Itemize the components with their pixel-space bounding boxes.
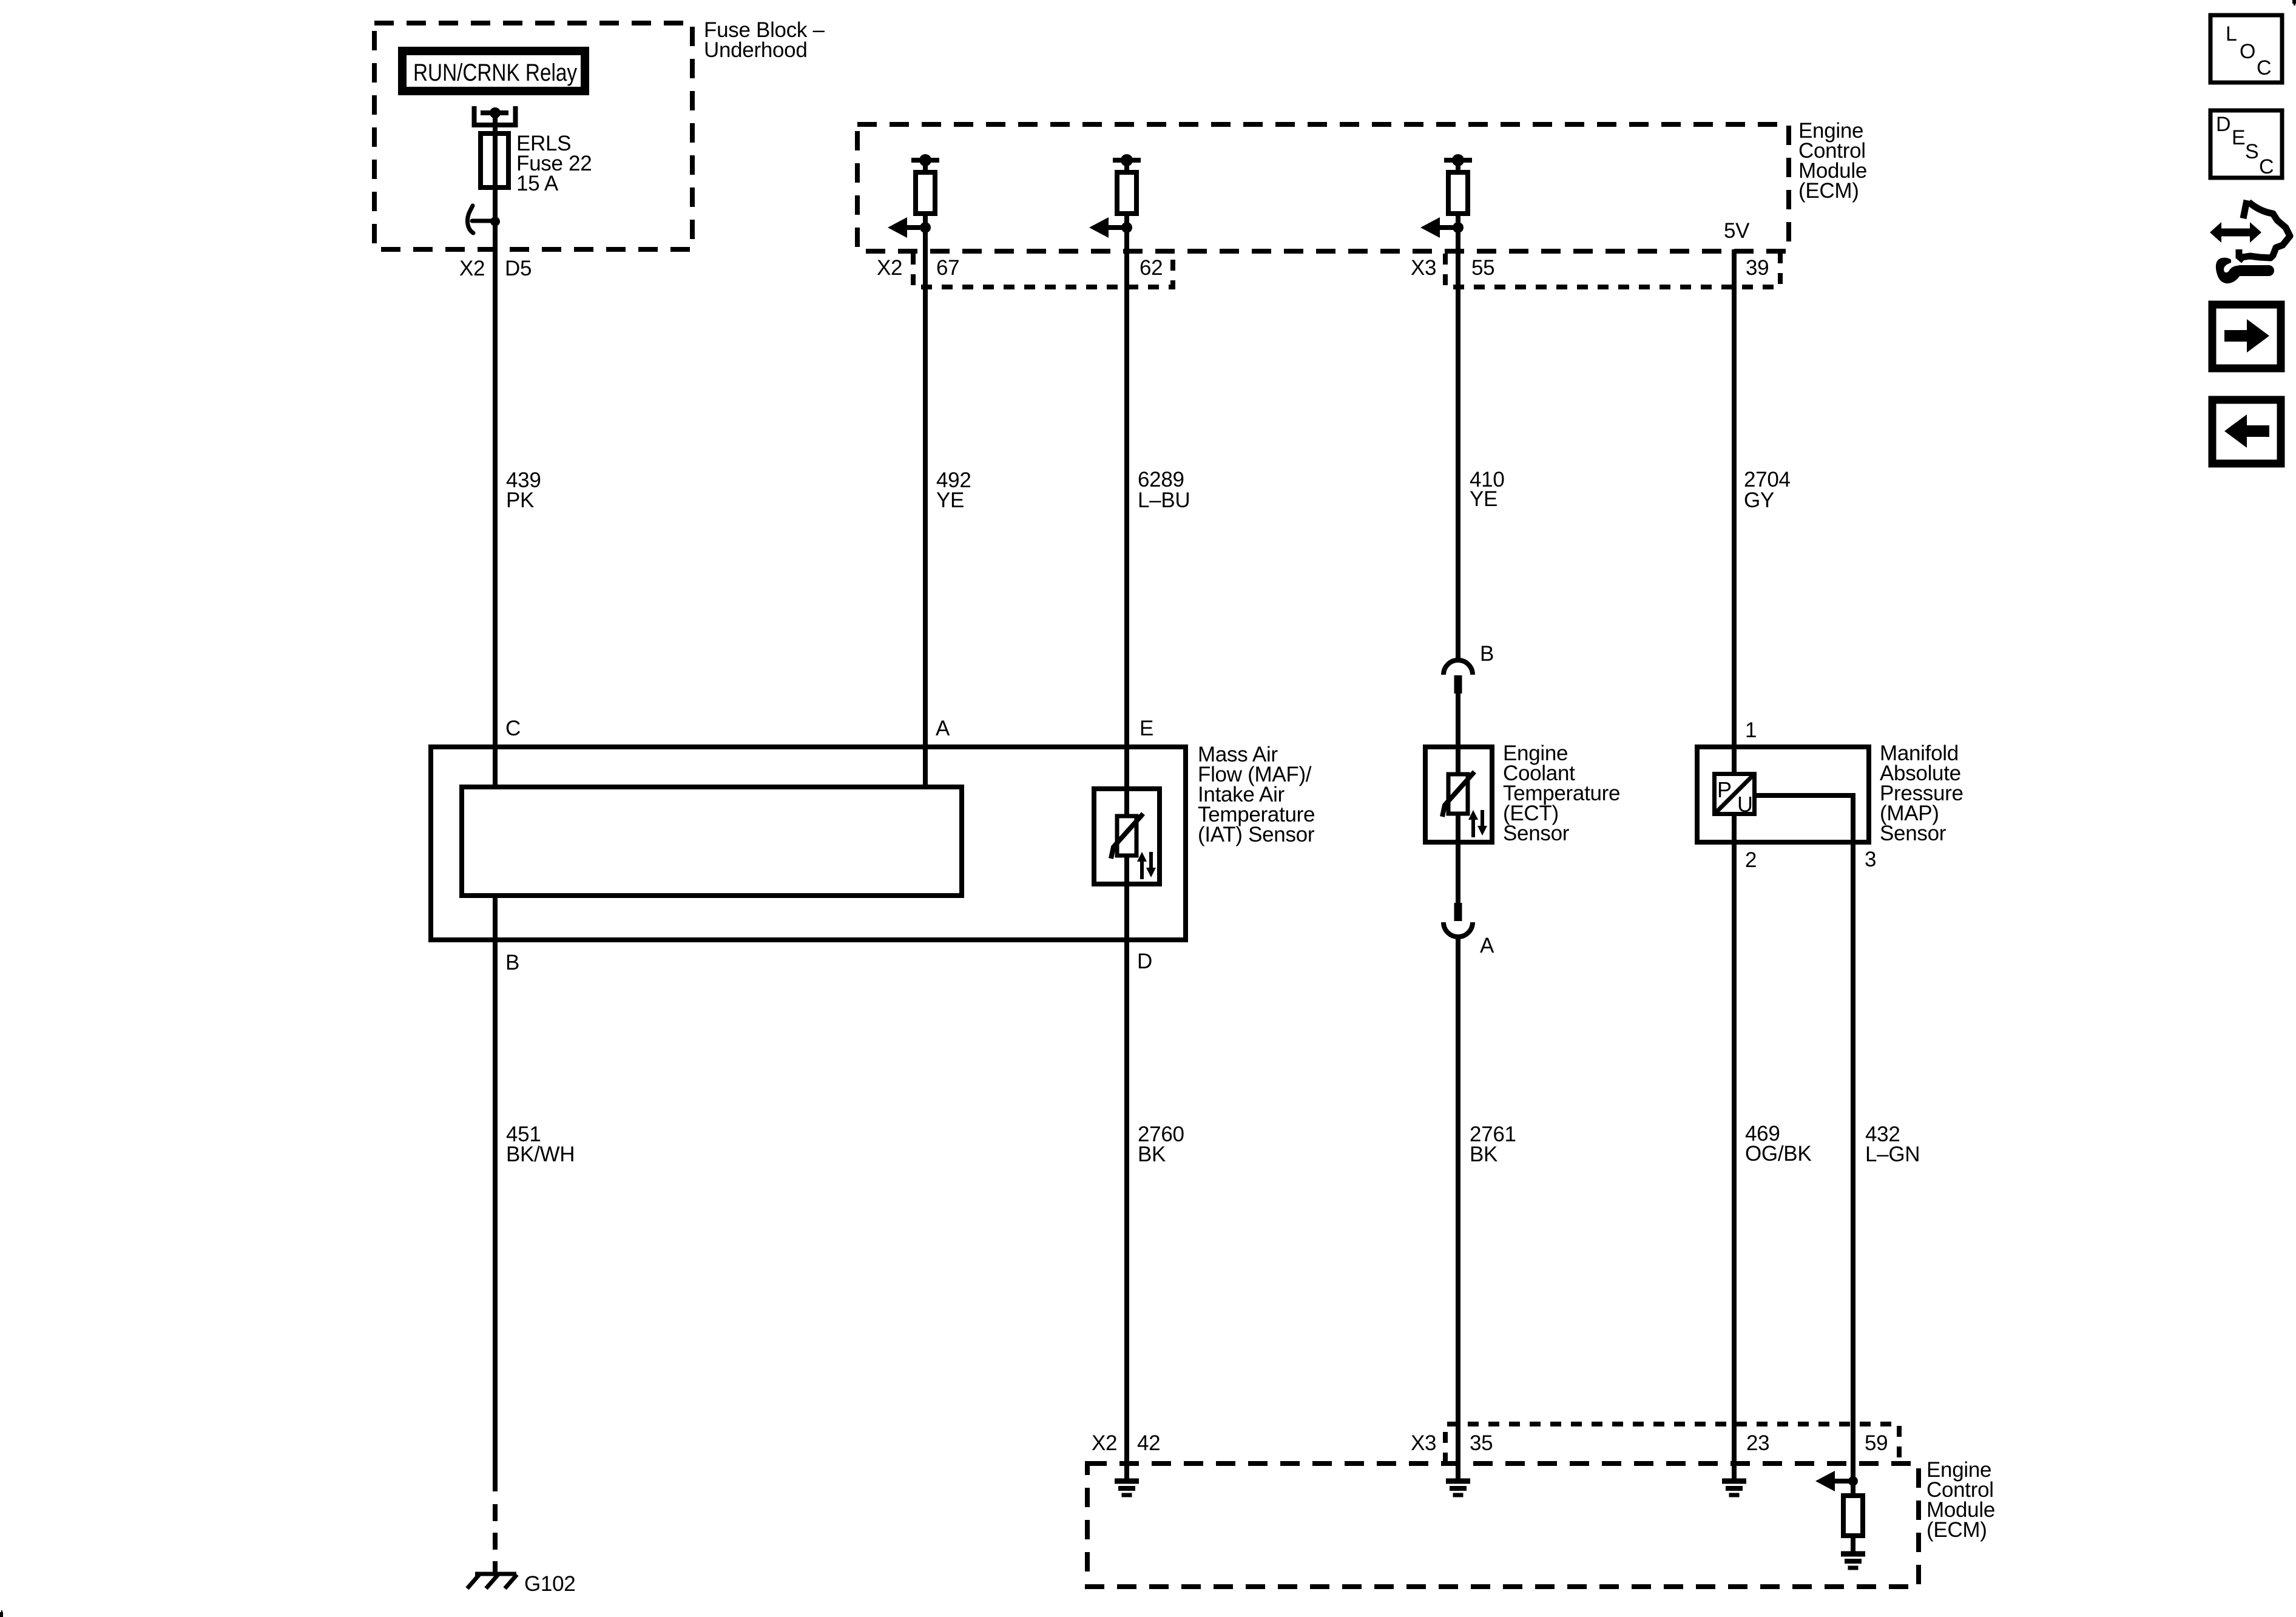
wire label 451 BK/WH [506, 1122, 575, 1166]
svg-text:E: E [2232, 126, 2246, 149]
svg-text:YE: YE [1470, 487, 1497, 511]
svg-text:E: E [1140, 717, 1153, 740]
wire label 2761 BK [1470, 1122, 1516, 1166]
ECM bottom pin labels [1092, 1431, 1888, 1455]
resistor R2 body [1117, 172, 1136, 214]
dashed portion of wire 451 to ground [493, 1504, 498, 1574]
svg-text:X2: X2 [459, 257, 485, 280]
svg-text:23: 23 [1746, 1431, 1769, 1455]
svg-text:42: 42 [1137, 1431, 1160, 1455]
svg-text:15 A: 15 A [516, 172, 559, 195]
svg-text:67: 67 [936, 256, 959, 280]
fuse block - underhood dashed box [374, 23, 692, 249]
fuse F22 ERLS body [481, 133, 508, 187]
wire 2761 from connector A down to ECM [1456, 937, 1460, 1481]
svg-text:YE: YE [936, 488, 964, 512]
MAF/IAT sensor outer box [431, 747, 1186, 940]
wire 2760 from IAT to MAF pin D down [1124, 856, 1129, 1481]
svg-text:L: L [2226, 22, 2237, 46]
resistor R3 body [1448, 172, 1468, 214]
svg-text:2: 2 [1745, 848, 1757, 872]
connector B of ECT (arc and terminal) [1443, 642, 1494, 694]
svg-text:PK: PK [506, 488, 534, 512]
svg-text:BK: BK [1470, 1143, 1497, 1166]
tap clip symbol on wire 439 [467, 206, 495, 233]
wire label 2760 BK [1138, 1122, 1184, 1166]
svg-text:A: A [1480, 934, 1494, 957]
ground symbol under R4 [1841, 1554, 1865, 1568]
ECM top dashed box [857, 124, 1789, 251]
svg-text:Sensor: Sensor [1503, 822, 1570, 845]
MAP pin numbers 2 3 [1745, 848, 1876, 872]
icon DESC box [2210, 110, 2282, 178]
MAF sensor pin letters C A E [505, 717, 1153, 740]
resistor R2 top bar [1113, 158, 1141, 163]
wire label 492 YE [936, 468, 971, 512]
wire 492 vertical (resistor R1 to MAF pin A) [923, 160, 928, 787]
svg-text:GY: GY [1744, 488, 1774, 512]
svg-text:O: O [2240, 40, 2255, 63]
svg-text:D: D [1137, 950, 1152, 973]
wire inside ECT box [1456, 747, 1460, 842]
ground G102 symbol [467, 1574, 517, 1588]
IAT element box [1094, 789, 1160, 884]
wire 469 from MAP pin 2 down to ECM [1732, 842, 1737, 1481]
svg-text:U: U [1737, 792, 1753, 817]
wire 439 vertical from fuse bus to MAF pin C [493, 113, 498, 787]
resistor R1 top bar [911, 158, 939, 163]
wire 6289 vertical (resistor R2 to MAF pin E) [1124, 160, 1129, 816]
svg-text:3: 3 [1865, 848, 1876, 871]
wire from connector B to ECT box [1456, 694, 1460, 774]
wire from ECT box to connector A [1456, 842, 1460, 903]
ECM bottom label [1926, 1458, 1995, 1542]
svg-text:X2: X2 [877, 256, 902, 280]
ECT arrows up/down [1468, 810, 1487, 837]
fuse block label [704, 18, 825, 62]
wire from R4 to ground [1851, 1536, 1855, 1554]
junction dot R3 top [1452, 154, 1464, 166]
ECM top pin labels [877, 256, 1769, 280]
svg-text:1: 1 [1745, 718, 1757, 742]
svg-text:39: 39 [1746, 256, 1769, 280]
wire branch from P/U to MAP pin 3 [1755, 795, 1853, 842]
svg-text:Underhood: Underhood [704, 38, 808, 62]
arrow at R2 [1089, 217, 1127, 238]
fuse F22 labels [516, 132, 592, 195]
connector label X2 D5 [459, 257, 532, 280]
ECM top pin dotted box X2 group [913, 254, 1173, 287]
svg-text:D: D [2216, 113, 2231, 136]
arrow at R3 [1420, 217, 1458, 238]
MAP sensor box [1697, 747, 1869, 842]
svg-text:BK/WH: BK/WH [506, 1143, 575, 1166]
junction dot R2 top [1121, 154, 1133, 166]
svg-text:C: C [2259, 155, 2274, 178]
svg-text:P: P [1717, 777, 1732, 802]
MAF inner element box [462, 787, 962, 896]
arrow at ECM pin 59 [1815, 1471, 1853, 1491]
svg-text:X2: X2 [1092, 1431, 1117, 1455]
svg-text:B: B [505, 951, 519, 974]
svg-text:A: A [936, 717, 950, 740]
junction dot R3 arrow [1453, 222, 1464, 233]
resistor R1 body [916, 172, 935, 214]
ECM bottom pin dotted box X3 group [1445, 1424, 1899, 1463]
MAP transducer P/U square [1715, 774, 1755, 817]
arrow at R1 [888, 217, 925, 238]
ECT sensor label [1503, 741, 1620, 845]
svg-text:RUN/CRNK Relay: RUN/CRNK Relay [413, 59, 577, 86]
svg-text:OG/BK: OG/BK [1745, 1142, 1811, 1166]
junction dot R1 top [919, 154, 931, 166]
svg-text:D5: D5 [505, 257, 532, 280]
wire label 6289 L-BU [1138, 468, 1190, 512]
svg-text:(ECM): (ECM) [1926, 1518, 1987, 1542]
svg-text:G102: G102 [524, 1572, 575, 1596]
svg-text:35: 35 [1470, 1431, 1493, 1455]
svg-text:X3: X3 [1411, 1431, 1436, 1455]
wire 451 from MAF pin B down (through box) [493, 896, 498, 1491]
svg-text:(ECM): (ECM) [1798, 179, 1859, 203]
svg-text:L–BU: L–BU [1138, 488, 1190, 512]
ECM bottom dashed box [1087, 1463, 1919, 1587]
wire label 469 OG/BK [1745, 1122, 1811, 1166]
resistor R4 in ECM bottom [1843, 1496, 1863, 1536]
wire 432 from MAP pin 3 down to ECM [1851, 842, 1855, 1554]
fuse holder cup [474, 106, 516, 125]
wire label 439 PK [506, 468, 541, 512]
svg-text:62: 62 [1140, 256, 1163, 280]
IAT arrows up/down [1137, 852, 1156, 879]
junction dot on fuse bus [490, 107, 501, 118]
wire 410 vertical (resistor R3 to ECT pin B) [1456, 160, 1460, 662]
page edge mark bottom left [0, 1612, 3, 1617]
icon LOC box [2210, 15, 2282, 83]
page edge mark top right [2292, 0, 2296, 4]
ECT thermistor [1442, 772, 1474, 817]
IAT thermistor [1111, 814, 1143, 859]
wire label 410 YE [1470, 468, 1505, 511]
MAF sensor label [1198, 743, 1315, 846]
ground symbol at ECM pin 35 [1446, 1481, 1470, 1495]
svg-text:59: 59 [1865, 1431, 1888, 1455]
svg-text:(IAT) Sensor: (IAT) Sensor [1198, 823, 1315, 846]
svg-text:C: C [2257, 56, 2272, 79]
connector A of ECT (terminal and arc) [1443, 903, 1494, 957]
svg-text:C: C [505, 717, 521, 740]
ECM top label [1798, 119, 1867, 203]
ECM top pin dotted box X3 group [1445, 254, 1780, 287]
ECT sensor box [1425, 747, 1492, 842]
icon back arrow box [2212, 400, 2281, 464]
svg-text:55: 55 [1471, 256, 1494, 280]
icon forward arrow box [2212, 305, 2281, 368]
svg-text:B: B [1480, 642, 1494, 666]
junction dot at ECM pin 59 [1848, 1476, 1858, 1486]
wire inside IAT box [1124, 789, 1129, 884]
svg-text:X3: X3 [1411, 256, 1436, 280]
MAF sensor pin letters B D [505, 950, 1152, 974]
icon adjustable hand with wrench [2210, 200, 2290, 283]
ground symbol at ECM pin 23 [1722, 1481, 1746, 1495]
wire label 432 L-GN [1865, 1122, 1920, 1166]
junction dot at tap [490, 217, 500, 226]
wire 2704 vertical (5V to MAP pin 1) [1732, 249, 1737, 774]
junction dot R2 arrow [1121, 222, 1132, 233]
junction dot R1 arrow [920, 222, 931, 233]
svg-text:BK: BK [1138, 1143, 1166, 1166]
ground symbol at ECM pin 42 [1115, 1481, 1139, 1495]
svg-text:Sensor: Sensor [1880, 822, 1947, 845]
svg-text:5V: 5V [1724, 219, 1750, 243]
MAP sensor label [1880, 741, 1963, 845]
relay K1 RUN/CRNK Relay box [402, 51, 585, 91]
svg-text:S: S [2245, 140, 2259, 163]
resistor R3 top bar [1444, 158, 1472, 163]
wire label 2704 GY [1744, 468, 1791, 512]
svg-text:L–GN: L–GN [1865, 1143, 1920, 1166]
wire inside MAP box (pin1 to P/U and P/U down to pin 2) [1732, 747, 1737, 842]
